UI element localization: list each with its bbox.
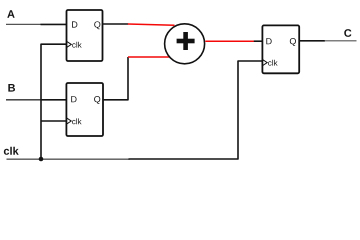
node clk label <box>4 147 19 155</box>
clock triangle of U1 <box>67 42 71 48</box>
wire C stub (gray) <box>324 40 356 42</box>
wire A to FF1 D <box>41 23 67 25</box>
wire adder output (red) <box>205 40 254 42</box>
adder U4 <box>165 24 205 64</box>
pin clk of U2 <box>72 118 81 124</box>
pin clk of U3 <box>268 60 277 66</box>
wire B stub (gray) <box>6 99 41 101</box>
wire U2 Q output riser <box>103 57 128 100</box>
pin D of U3 <box>266 38 271 44</box>
clock triangle of U3 <box>263 60 267 66</box>
wire B to FF2 D <box>41 99 67 101</box>
plus sign of adder <box>177 39 195 44</box>
flip-flop U1 <box>67 10 103 61</box>
node B label <box>8 84 15 92</box>
pin D of U2 <box>71 96 76 102</box>
node A label <box>7 10 14 18</box>
pin D of U1 <box>72 21 77 27</box>
pin clk of U1 <box>72 42 81 48</box>
junction clk <box>39 157 44 162</box>
pin Q of U2 <box>94 96 100 104</box>
wire clk stub (gray) <box>7 158 130 160</box>
wire clk rail to FF3 clk <box>129 61 263 159</box>
flip-flop U3 <box>262 25 299 73</box>
pin Q of U3 <box>290 38 296 46</box>
wire U1 Q output <box>103 23 129 25</box>
wire A stub (gray) <box>6 23 41 25</box>
wire U2 Q to adder (red) <box>128 56 170 58</box>
wire adder output to FF3 D <box>254 40 263 42</box>
clock triangle of U2 <box>67 118 71 124</box>
wire clk riser to FF1 clk <box>41 44 67 159</box>
pin Q of U1 <box>94 21 100 29</box>
wire U1 Q to adder (red) <box>128 24 175 25</box>
node C label <box>344 29 351 37</box>
flip-flop U2 <box>66 83 103 136</box>
wire U3 Q output <box>299 40 325 42</box>
wire clk branch to FF2 clk <box>41 120 66 122</box>
